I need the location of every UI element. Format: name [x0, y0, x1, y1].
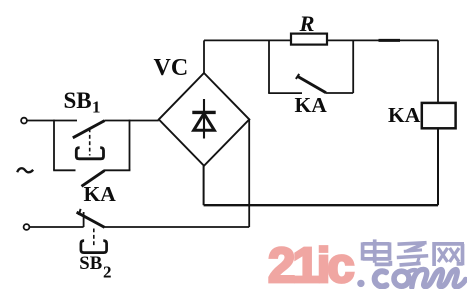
- diode axis line: [203, 99, 205, 139]
- svg-text:KA: KA: [84, 182, 117, 206]
- wire top DC bus right: [327, 39, 438, 41]
- label SB1: [64, 88, 101, 117]
- SB2 fixed contact stub: [83, 212, 85, 227]
- wire bridge top stem: [203, 40, 205, 73]
- wire bottom DC bus: [204, 204, 438, 206]
- wire SB2 to AC riser: [105, 226, 250, 228]
- SB2 blade end tick: [79, 209, 81, 215]
- wire R-parallel branch bottom left: [268, 92, 302, 94]
- wire top DC bus left: [204, 39, 291, 41]
- wire right rail down: [129, 120, 131, 171]
- label KA (coil): [388, 103, 421, 127]
- svg-text:2: 2: [103, 262, 112, 281]
- watermark char zi: [397, 243, 428, 265]
- bridge rectifier VC (diamond): [159, 73, 250, 166]
- wire SB1 to bridge left vertex: [105, 120, 159, 122]
- label VC: [154, 55, 189, 81]
- relay contact KA (shorting contact blade): [298, 76, 326, 92]
- wire top-left to SB1: [27, 120, 77, 122]
- terminal X1 (top AC input): [21, 118, 27, 124]
- pushbutton SB2 (NC contact blade): [77, 212, 105, 227]
- pushbutton SB1 (NO contact blade): [73, 121, 105, 138]
- resistor R body: [291, 34, 327, 45]
- terminal X2 (bottom AC input): [24, 224, 30, 230]
- watermark dot: [357, 280, 364, 287]
- wire AC riser up to bridge right vertex: [248, 119, 250, 227]
- label SB2: [79, 253, 111, 281]
- label R: [299, 11, 315, 36]
- svg-text:21ic: 21ic: [268, 239, 353, 289]
- svg-text:VC: VC: [154, 55, 189, 81]
- relay contact KA (self-hold, blade): [82, 171, 105, 187]
- wire bottom-left to SB2: [30, 226, 84, 228]
- wire left rail down: [53, 120, 55, 171]
- SB2 actuator dashed link: [93, 229, 95, 248]
- wire R-parallel branch left drop: [268, 40, 270, 93]
- watermark com script: [375, 269, 466, 287]
- label KA (shorting contact): [295, 93, 328, 117]
- relay coil KA: [422, 103, 456, 128]
- SB1 actuator cap: [76, 148, 103, 159]
- wire KA branch right: [104, 169, 130, 171]
- wire KA branch left: [53, 169, 75, 171]
- label KA (self-hold contact): [84, 182, 117, 206]
- svg-text:KA: KA: [295, 93, 328, 117]
- SB2 actuator cap: [81, 241, 107, 253]
- svg-text:R: R: [299, 11, 315, 36]
- watermark char wang: [433, 242, 465, 266]
- svg-text:SB: SB: [79, 253, 102, 274]
- watermark 21ic: [268, 239, 353, 289]
- wire bridge bottom stem: [203, 166, 205, 205]
- AC source symbol ~: [17, 168, 33, 172]
- KA blade end tick: [296, 74, 299, 79]
- diode cathode bar: [192, 111, 215, 114]
- wire R-parallel branch bottom right: [326, 92, 353, 94]
- svg-text:KA: KA: [388, 103, 421, 127]
- wire right drop to coil: [437, 40, 439, 103]
- SB1 actuator dashed link: [89, 129, 91, 156]
- svg-text:SB: SB: [64, 88, 92, 113]
- wire coil down: [437, 128, 439, 205]
- svg-text:1: 1: [92, 98, 101, 117]
- diode triangle: [194, 114, 215, 131]
- wire R-parallel branch right rise: [352, 40, 354, 93]
- watermark char dian: [363, 239, 391, 266]
